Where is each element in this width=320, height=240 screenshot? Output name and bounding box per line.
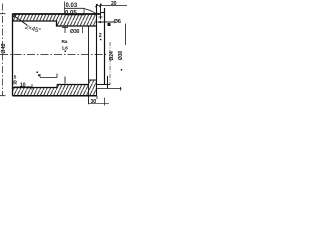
tolerance frame mid line xyxy=(65,7,85,9)
flange hole tick xyxy=(99,16,103,18)
tolerance frame left edge xyxy=(64,2,66,15)
chamfer face xyxy=(13,14,17,18)
short vertical below hatch right xyxy=(96,96,98,99)
step dimension line xyxy=(40,77,57,79)
ten dimension line xyxy=(14,86,32,88)
floor tick xyxy=(64,77,66,84)
step dim marks xyxy=(37,72,39,74)
thirty right ext tick xyxy=(104,98,106,106)
left dim top tick xyxy=(0,13,6,15)
bore floor middle xyxy=(57,84,89,86)
ten dim tick xyxy=(31,84,33,90)
flange left face xyxy=(96,4,98,96)
svg-text:10: 10 xyxy=(20,83,26,89)
svg-text:Ø30: Ø30 xyxy=(118,51,124,61)
roughness dot xyxy=(65,51,67,53)
svg-text:30: 30 xyxy=(91,99,97,105)
hatch bottom wall section xyxy=(13,80,97,96)
step dim right tick xyxy=(56,74,58,78)
tolerance leader xyxy=(84,9,97,14)
svg-text:Ø42: Ø42 xyxy=(1,43,7,53)
svg-text:5: 5 xyxy=(14,75,17,80)
tolerance frame bottom line xyxy=(65,14,85,16)
bore text tick xyxy=(82,27,84,33)
flange right face xyxy=(104,8,106,85)
hatch top wall section xyxy=(13,14,97,26)
outer dim dot xyxy=(121,69,122,71)
svg-text:Ra: Ra xyxy=(62,39,68,45)
extension tick xyxy=(120,87,122,91)
centerline xyxy=(0,54,108,56)
twenty dim tick b xyxy=(99,4,101,7)
chamfer leader xyxy=(14,16,28,26)
bore floor left xyxy=(13,87,58,89)
bore floor step xyxy=(56,85,58,88)
top outer edge xyxy=(13,13,101,15)
bore top line xyxy=(13,21,97,26)
svg-text:Ø30: Ø30 xyxy=(70,29,80,35)
flange bottom extension line xyxy=(97,88,122,90)
left dim bottom tick xyxy=(0,95,6,97)
svg-text:R: R xyxy=(13,80,17,86)
thirty dim line bottom xyxy=(89,103,110,105)
flange step extension line xyxy=(100,4,102,20)
left diameter dimension line xyxy=(2,4,4,96)
hole leader arrow xyxy=(97,21,101,23)
bore end wall / extension line xyxy=(88,26,90,104)
svg-text:2: 2 xyxy=(99,33,102,39)
datum bar xyxy=(62,27,68,33)
bore floor right xyxy=(89,79,97,81)
hole leader line xyxy=(98,21,115,23)
flange hub face xyxy=(107,76,109,89)
twenty dim tick a xyxy=(95,4,97,7)
flange bottom face xyxy=(97,84,111,86)
twenty dim line top right xyxy=(97,5,128,7)
left end face xyxy=(12,14,14,96)
svg-text:Ø6: Ø6 xyxy=(114,19,122,25)
outer vertical dimension line xyxy=(125,24,127,46)
flange top face xyxy=(101,12,105,14)
bottom outer edge xyxy=(13,95,97,97)
svg-text:0.05: 0.05 xyxy=(65,10,77,16)
tolerance frame right edge xyxy=(83,8,85,15)
hole leader blob xyxy=(108,23,111,26)
svg-text:Ø24: Ø24 xyxy=(109,51,115,61)
svg-text:20: 20 xyxy=(111,1,117,7)
inner vertical dimension centerline xyxy=(109,42,111,85)
step dim left tick xyxy=(39,74,41,78)
